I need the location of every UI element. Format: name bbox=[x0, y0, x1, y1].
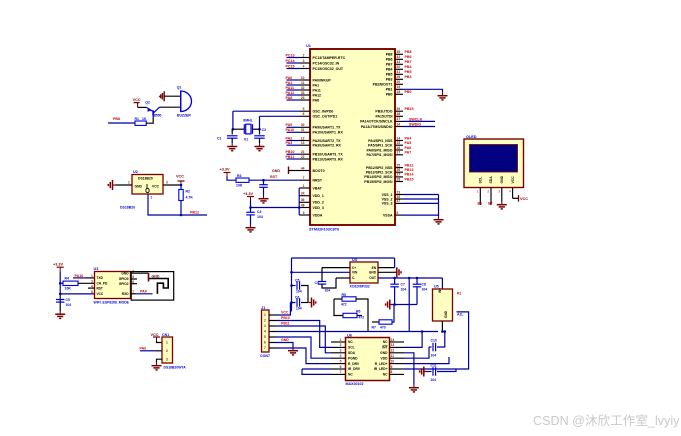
svg-text:XC6206P332: XC6206P332 bbox=[350, 285, 370, 289]
svg-text:4.7K: 4.7K bbox=[186, 196, 194, 200]
wire SWDIO bbox=[403, 126, 435, 128]
MCU pin 45 PB8 bbox=[386, 50, 403, 57]
svg-text:17: 17 bbox=[397, 151, 401, 155]
svg-text:104: 104 bbox=[325, 289, 331, 293]
svg-text:BUZZER: BUZZER bbox=[177, 113, 191, 117]
svg-text:13: 13 bbox=[301, 141, 305, 145]
svg-text:10K: 10K bbox=[65, 286, 72, 290]
svg-text:SCL: SCL bbox=[479, 177, 483, 184]
wire bbox=[298, 187, 301, 189]
svg-text:24: 24 bbox=[301, 192, 305, 196]
MCU pin 5 OSC_IN/PD0 bbox=[300, 107, 333, 114]
svg-text:VSS_1: VSS_1 bbox=[382, 193, 393, 197]
capacitor C11 bbox=[433, 367, 436, 376]
svg-text:8MHz: 8MHz bbox=[243, 118, 252, 122]
MCU pin 9 VDDA bbox=[300, 211, 323, 218]
wire net PC15 bbox=[287, 68, 301, 70]
svg-text:3: 3 bbox=[303, 59, 305, 63]
wire to C3 bbox=[263, 180, 265, 184]
wire gnd to C11 bbox=[424, 371, 432, 373]
wire net PB10 bbox=[287, 153, 301, 155]
junction bbox=[232, 128, 235, 131]
MCU pin 22 PB11/USART3_RX bbox=[300, 155, 344, 162]
svg-text:GND: GND bbox=[500, 175, 504, 183]
svg-text:C1: C1 bbox=[217, 136, 222, 140]
svg-text:VDDA: VDDA bbox=[313, 213, 323, 217]
power VCC buzzer bbox=[134, 103, 140, 108]
wire OUT down to rail bbox=[408, 278, 410, 332]
transistor Q2 8550 bbox=[146, 107, 159, 115]
svg-text:8: 8 bbox=[391, 370, 393, 374]
U6 pin 14 NC bbox=[383, 338, 404, 344]
svg-text:1: 1 bbox=[477, 190, 479, 194]
svg-text:29: 29 bbox=[301, 96, 305, 100]
svg-text:CON7: CON7 bbox=[260, 354, 270, 358]
svg-text:3: 3 bbox=[166, 181, 168, 185]
svg-text:C7: C7 bbox=[401, 283, 405, 287]
svg-text:PB15: PB15 bbox=[405, 177, 414, 181]
wire crystal left bbox=[232, 111, 234, 129]
svg-text:GND: GND bbox=[272, 169, 280, 173]
WiFi module U3 body bbox=[95, 272, 131, 299]
MCU pin 19 PB1 bbox=[386, 85, 403, 92]
wire OUT to sensor pin1 bbox=[441, 278, 443, 289]
signal ground buzzer supply bbox=[159, 91, 165, 101]
svg-text:U3: U3 bbox=[94, 267, 99, 271]
svg-text:PA5: PA5 bbox=[405, 141, 412, 145]
capacitor C5b bbox=[297, 281, 300, 290]
svg-text:PA1: PA1 bbox=[286, 81, 293, 85]
MCU pin 4 PC15/OSC32_OUT bbox=[300, 64, 344, 71]
svg-text:44: 44 bbox=[301, 166, 305, 170]
MCU pin 3 PC14/OSC32_IN bbox=[300, 59, 340, 66]
wire RXD stub bbox=[131, 293, 137, 295]
svg-text:48: 48 bbox=[301, 203, 305, 207]
svg-text:PC15/OSC32_OUT: PC15/OSC32_OUT bbox=[313, 67, 344, 71]
OLED module body bbox=[464, 139, 524, 188]
svg-text:5: 5 bbox=[264, 335, 266, 339]
wire CN1 pin2 stub bbox=[156, 350, 162, 352]
svg-text:PC15: PC15 bbox=[286, 64, 295, 68]
wire PA9 bbox=[136, 293, 153, 295]
svg-text:Q1: Q1 bbox=[177, 86, 182, 90]
ground C1 bbox=[227, 143, 237, 150]
svg-text:1: 1 bbox=[166, 341, 168, 345]
svg-text:VBAT: VBAT bbox=[313, 186, 323, 190]
MCU pin 12 PA2/USART2_TX bbox=[300, 136, 341, 143]
wire GPIO2 stub bbox=[131, 283, 138, 285]
wire net PA3 bbox=[287, 144, 301, 146]
svg-text:PA0/WKUP: PA0/WKUP bbox=[313, 78, 332, 82]
svg-text:VCC: VCC bbox=[97, 292, 104, 296]
wire net PA8 bbox=[287, 99, 301, 101]
wire C8 down bbox=[416, 287, 418, 305]
ground J1 bbox=[288, 348, 298, 355]
wire rail to R4 bbox=[60, 282, 63, 284]
svg-text:1: 1 bbox=[264, 313, 266, 317]
svg-text:PB8: PB8 bbox=[405, 50, 412, 54]
svg-text:104: 104 bbox=[296, 290, 302, 294]
U6 pin 12 GND bbox=[380, 349, 404, 355]
antenna outline bbox=[131, 272, 174, 301]
svg-text:R2: R2 bbox=[186, 190, 191, 194]
svg-text:VCC: VCC bbox=[152, 184, 160, 188]
svg-text:1: 1 bbox=[128, 181, 130, 185]
OLED screen bbox=[470, 145, 518, 173]
resistor R2 bbox=[179, 190, 183, 201]
ground DS18B20 bbox=[108, 180, 115, 190]
wire R1 to Q2 base bbox=[146, 116, 153, 124]
svg-text:IR_LED+: IR_LED+ bbox=[374, 367, 388, 371]
MCU pin 41 PB5 bbox=[386, 70, 403, 77]
svg-text:IN+: IN+ bbox=[438, 288, 442, 293]
svg-text:VSS_2: VSS_2 bbox=[382, 197, 393, 201]
svg-text:42: 42 bbox=[397, 55, 401, 59]
ground OLED bbox=[497, 202, 507, 209]
svg-text:8: 8 bbox=[397, 211, 399, 215]
svg-text:37: 37 bbox=[397, 117, 401, 121]
wire U6 pin7 left bbox=[302, 369, 331, 374]
wire R7 right bbox=[392, 305, 394, 323]
wire J1 pin4 INT rail bbox=[276, 331, 438, 333]
svg-text:2: 2 bbox=[264, 319, 266, 323]
svg-text:R1: R1 bbox=[457, 292, 461, 296]
svg-text:3: 3 bbox=[166, 357, 168, 361]
svg-text:PB3: PB3 bbox=[405, 75, 412, 79]
ground C7 C8 bbox=[386, 300, 393, 310]
svg-text:33: 33 bbox=[301, 91, 305, 95]
svg-text:GND: GND bbox=[369, 271, 377, 275]
svg-text:PB13: PB13 bbox=[405, 168, 414, 172]
svg-text:GND: GND bbox=[444, 310, 448, 318]
svg-text:VDD_1: VDD_1 bbox=[313, 194, 324, 198]
MCU pin 44 BOOT0 bbox=[300, 166, 325, 173]
svg-text:15: 15 bbox=[397, 141, 401, 145]
svg-text:C6: C6 bbox=[295, 295, 299, 299]
ground below VSS rail bbox=[434, 217, 444, 224]
svg-text:38: 38 bbox=[397, 112, 401, 116]
wire J1 pin5 bbox=[276, 337, 331, 358]
svg-text:PB8: PB8 bbox=[386, 53, 393, 57]
svg-text:VIN: VIN bbox=[352, 271, 358, 275]
svg-text:GPIO0: GPIO0 bbox=[119, 277, 129, 281]
svg-text:7: 7 bbox=[264, 346, 266, 350]
U6 INT overline bbox=[383, 344, 388, 346]
resistor R1 bbox=[135, 121, 146, 125]
svg-text:PA15/JTDI: PA15/JTDI bbox=[375, 115, 392, 119]
MCU pin 15 PA5/SPI1_SCK bbox=[368, 141, 403, 148]
MCU pin 20 PB2/BOOT1 bbox=[373, 80, 403, 87]
wire C6 to gnd bbox=[301, 302, 308, 304]
wire net PA12 bbox=[287, 94, 301, 96]
svg-text:34: 34 bbox=[397, 122, 401, 126]
svg-text:PB13/SPI2_SCK: PB13/SPI2_SCK bbox=[366, 171, 393, 175]
junction bbox=[59, 293, 62, 296]
svg-text:9: 9 bbox=[391, 365, 393, 369]
MCU pin 28 PB15/SPI2_MOSI bbox=[364, 177, 403, 184]
svg-text:SWDIO: SWDIO bbox=[409, 122, 421, 126]
svg-text:VDD_2: VDD_2 bbox=[313, 201, 324, 205]
svg-text:45: 45 bbox=[397, 50, 401, 54]
svg-text:4: 4 bbox=[340, 354, 342, 358]
wire J1 pin7 bbox=[276, 348, 331, 364]
capacitor C5 wifi bbox=[56, 300, 64, 303]
svg-text:VCC: VCC bbox=[511, 176, 515, 184]
wire C1 to ground bbox=[231, 138, 233, 143]
svg-text:3: 3 bbox=[340, 349, 342, 353]
svg-text:104: 104 bbox=[257, 215, 263, 219]
junction bbox=[180, 214, 183, 217]
svg-text:47: 47 bbox=[397, 199, 401, 203]
svg-text:PGND: PGND bbox=[348, 356, 358, 360]
MCU pin 36 VDD_2 bbox=[300, 198, 324, 205]
wire C5b to gnd rail bbox=[301, 286, 308, 303]
svg-text:PA7/SPI1_MOSI: PA7/SPI1_MOSI bbox=[366, 153, 392, 157]
ground right of U1 bbox=[438, 93, 448, 100]
svg-text:10K: 10K bbox=[236, 184, 243, 188]
svg-text:OSC_OUT/PD1: OSC_OUT/PD1 bbox=[313, 115, 338, 119]
svg-text:PA5/SPI1_SCK: PA5/SPI1_SCK bbox=[368, 144, 393, 148]
MCU pin 47 VSS_3 bbox=[382, 199, 403, 206]
svg-text:EN: EN bbox=[372, 266, 377, 270]
U6 pin 2 SCL bbox=[331, 343, 355, 349]
U6 pin 6 IR_DRV bbox=[331, 365, 361, 371]
svg-text:PC14: PC14 bbox=[286, 59, 295, 63]
U6 pin 8 NC bbox=[383, 370, 404, 376]
svg-text:PB3/JTDO: PB3/JTDO bbox=[375, 110, 392, 114]
svg-text:DS18B20: DS18B20 bbox=[138, 177, 153, 181]
svg-text:PB5: PB5 bbox=[386, 73, 393, 77]
MCU pin 30 PA9/USART1_TX bbox=[300, 123, 341, 130]
ground C4 bbox=[246, 225, 256, 232]
svg-text:104: 104 bbox=[401, 288, 407, 292]
svg-text:PB14: PB14 bbox=[405, 173, 414, 177]
capacitor C3 bbox=[259, 185, 268, 188]
junction bbox=[180, 184, 183, 187]
MCU pin 23 VSS_1 bbox=[382, 190, 403, 197]
resistor R7 bbox=[379, 320, 392, 324]
capacitor C1 bbox=[227, 136, 238, 138]
svg-text:PA4: PA4 bbox=[405, 136, 412, 140]
wire R2 down bbox=[180, 201, 182, 216]
wire J1 pin3 stub bbox=[269, 325, 276, 327]
wire rail to C6 bbox=[292, 302, 296, 304]
svg-text:C10: C10 bbox=[431, 338, 437, 342]
svg-text:BOOT0: BOOT0 bbox=[313, 169, 325, 173]
wire R5 left bbox=[334, 298, 342, 300]
wire bbox=[298, 214, 301, 216]
MCU pin 42 PB6 bbox=[386, 55, 403, 62]
svg-text:+3.3V: +3.3V bbox=[220, 168, 230, 172]
svg-text:14: 14 bbox=[397, 136, 401, 140]
svg-text:A1L: A1L bbox=[457, 313, 463, 317]
svg-text:PA10: PA10 bbox=[286, 128, 295, 132]
U6 pin 10 R_LED+ bbox=[375, 359, 404, 365]
MCU pin 43 PB7 bbox=[386, 60, 403, 67]
wire left rail bbox=[291, 258, 293, 311]
wire bbox=[298, 195, 301, 197]
wire INT up bbox=[404, 332, 422, 348]
resistor R4 bbox=[63, 281, 78, 285]
wire +3.3V to VDD_3 bbox=[251, 201, 300, 208]
U6 pin 9 IR_LED+ bbox=[374, 365, 404, 371]
wire C11 right bbox=[437, 369, 456, 372]
svg-text:12: 12 bbox=[391, 349, 395, 353]
svg-text:R6: R6 bbox=[356, 309, 361, 313]
wire wifi rail bbox=[59, 271, 61, 299]
wire to C1 bbox=[231, 129, 233, 134]
svg-text:8: 8 bbox=[91, 290, 93, 294]
svg-text:+3.3V: +3.3V bbox=[243, 192, 253, 196]
svg-text:PA9: PA9 bbox=[286, 123, 293, 127]
svg-text:C-: C- bbox=[352, 276, 355, 280]
junction bbox=[416, 277, 419, 280]
U6 pin 5 R_DRV bbox=[331, 359, 360, 365]
MCU pin 39 PB3/JTDO bbox=[375, 107, 403, 114]
wire net PA1 bbox=[287, 84, 301, 86]
wire U6 pin6 left bbox=[302, 368, 331, 370]
svg-text:R3: R3 bbox=[237, 174, 242, 178]
svg-text:VSSA: VSSA bbox=[383, 213, 393, 217]
svg-text:2: 2 bbox=[303, 53, 305, 57]
U6 pin 3 SDA bbox=[331, 349, 356, 355]
junction bbox=[444, 330, 447, 333]
svg-text:PB15/SPI2_MOSI: PB15/SPI2_MOSI bbox=[364, 180, 392, 184]
OLED pin 2 bbox=[490, 188, 492, 205]
svg-text:PA2: PA2 bbox=[286, 136, 293, 140]
svg-text:472: 472 bbox=[359, 316, 365, 320]
svg-text:PA2/USART2_TX: PA2/USART2_TX bbox=[313, 139, 342, 143]
svg-text:PA0: PA0 bbox=[286, 76, 293, 80]
svg-text:C4: C4 bbox=[257, 210, 262, 214]
svg-text:GND: GND bbox=[281, 338, 289, 342]
svg-text:PB10: PB10 bbox=[286, 150, 295, 154]
wire TXD stub bbox=[86, 277, 95, 279]
svg-text:11: 11 bbox=[391, 354, 395, 358]
buzzer LS1 bbox=[181, 91, 192, 112]
junction bbox=[393, 277, 396, 280]
wire to C2 bbox=[259, 129, 261, 134]
svg-text:3: 3 bbox=[498, 190, 500, 194]
svg-text:10: 10 bbox=[391, 359, 395, 363]
junction bbox=[298, 206, 301, 209]
svg-text:VCC: VCC bbox=[176, 175, 184, 179]
wire R3 to NRST bbox=[249, 179, 300, 181]
wire OSC_IN bbox=[233, 110, 300, 112]
svg-text:36: 36 bbox=[301, 198, 305, 202]
svg-text:DS18B20WTA: DS18B20WTA bbox=[164, 366, 187, 370]
OLED pin 1 bbox=[479, 188, 481, 205]
svg-text:B6: B6 bbox=[478, 202, 482, 206]
wire RST stub bbox=[88, 287, 95, 289]
svg-text:C5: C5 bbox=[295, 278, 299, 282]
svg-text:PB6: PB6 bbox=[386, 58, 393, 62]
capacitor C6 bbox=[297, 298, 300, 307]
wire C- pin bbox=[336, 277, 350, 279]
svg-text:43: 43 bbox=[397, 60, 401, 64]
svg-text:OUT: OUT bbox=[369, 276, 376, 280]
svg-text:R_LED+: R_LED+ bbox=[375, 362, 388, 366]
junction bbox=[59, 282, 62, 285]
ground CN1 bbox=[152, 363, 162, 370]
svg-text:2: 2 bbox=[151, 195, 153, 199]
wire R_LED bbox=[404, 357, 449, 364]
svg-text:2: 2 bbox=[166, 349, 168, 353]
svg-text:PA14/JTCK/SWCLK: PA14/JTCK/SWCLK bbox=[360, 120, 393, 124]
MCU pin 11 PA1 bbox=[300, 81, 319, 88]
wire EN drop bbox=[394, 258, 396, 268]
svg-text:16: 16 bbox=[397, 146, 401, 150]
MAX30102 U6 body bbox=[346, 338, 390, 381]
wire rail to VCC pin bbox=[60, 293, 94, 295]
svg-text:PA8: PA8 bbox=[313, 98, 320, 102]
svg-text:PA6: PA6 bbox=[140, 347, 147, 351]
svg-text:6: 6 bbox=[340, 365, 342, 369]
svg-text:PB6: PB6 bbox=[405, 55, 412, 59]
wire Q2 collector to buzzer bbox=[160, 106, 181, 108]
wire CN1 pin1 bbox=[157, 341, 163, 343]
svg-text:2: 2 bbox=[487, 190, 489, 194]
svg-text:PA3/USART2_RX: PA3/USART2_RX bbox=[313, 144, 342, 148]
svg-text:20: 20 bbox=[397, 80, 401, 84]
svg-text:WIFI_ESP8266_MODE: WIFI_ESP8266_MODE bbox=[94, 301, 130, 305]
wire J1 pin7 stub bbox=[269, 347, 276, 349]
svg-text:18: 18 bbox=[397, 90, 401, 94]
MCU pin 25 PB12/SPI2_NSS bbox=[366, 163, 403, 170]
wire J1 pin3 bbox=[276, 326, 331, 353]
svg-text:U6: U6 bbox=[347, 333, 352, 337]
svg-text:RST: RST bbox=[270, 175, 278, 179]
wire J1 pin2 stub bbox=[269, 320, 276, 322]
wire SWCLK bbox=[403, 120, 435, 122]
svg-text:PA7: PA7 bbox=[405, 151, 412, 155]
svg-text:104: 104 bbox=[296, 307, 302, 311]
ground C6 bbox=[309, 298, 316, 308]
svg-text:472: 472 bbox=[341, 303, 347, 307]
MCU pin 33 PA12 bbox=[300, 91, 321, 98]
wire VDD rail bbox=[298, 188, 300, 215]
wire C8 up bbox=[416, 278, 418, 284]
svg-text:PB11: PB11 bbox=[286, 155, 295, 159]
resistor R5 bbox=[342, 297, 356, 301]
junction bbox=[290, 284, 293, 287]
svg-text:NRST: NRST bbox=[313, 179, 323, 183]
power VCC OLED bbox=[518, 195, 520, 202]
wire R7 left bbox=[372, 321, 379, 323]
wire VCC to Q2 emitter bbox=[138, 106, 147, 108]
svg-text:PB2/BOOT1: PB2/BOOT1 bbox=[373, 83, 393, 87]
wire U5 pin2 down bbox=[441, 321, 443, 332]
wire to U5 right bbox=[456, 312, 469, 369]
wire OSC_OUT bbox=[260, 115, 301, 117]
wire to C10 bbox=[429, 346, 432, 348]
wire VIN bbox=[292, 271, 351, 273]
svg-text:NC: NC bbox=[383, 373, 388, 377]
svg-text:22: 22 bbox=[301, 155, 305, 159]
resistor R6 bbox=[343, 313, 357, 317]
power +3.3V reset bbox=[224, 173, 231, 177]
wire IR_LED bbox=[404, 368, 456, 370]
MCU pin 29 PA8 bbox=[300, 96, 319, 103]
svg-text:PC14/OSC32_IN: PC14/OSC32_IN bbox=[313, 61, 340, 65]
power +3.3V wifi bbox=[57, 267, 64, 271]
wire net PA2 bbox=[287, 140, 301, 142]
svg-text:PA12: PA12 bbox=[313, 93, 322, 97]
ground U4 bbox=[394, 267, 401, 277]
svg-text:R_DRV: R_DRV bbox=[348, 362, 360, 366]
svg-text:VDD: VDD bbox=[381, 356, 389, 360]
wire C+ pin bbox=[322, 267, 350, 269]
